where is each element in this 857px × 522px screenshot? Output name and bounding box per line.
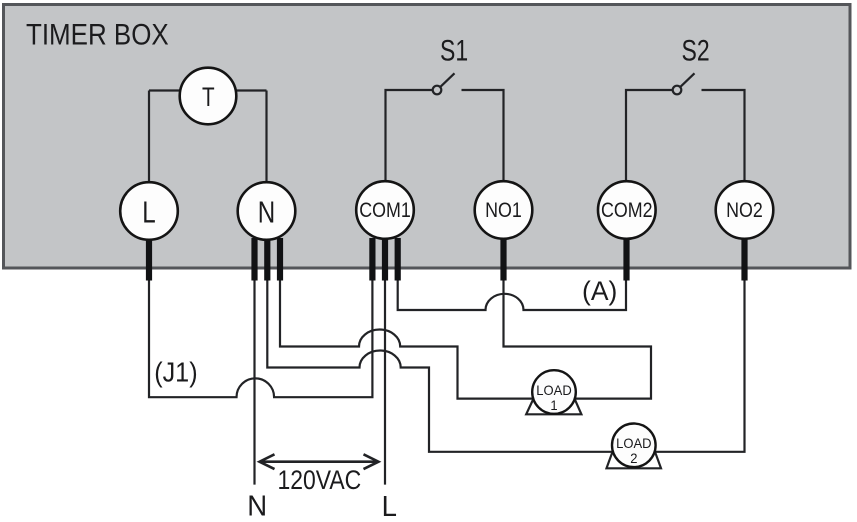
wire S1 to NO1 xyxy=(462,90,504,182)
wire A: COM1 right pin to COM2 xyxy=(398,279,626,310)
svg-text:N: N xyxy=(258,194,275,229)
terminal N xyxy=(238,182,296,240)
load 1 xyxy=(532,370,576,414)
pin stub NO1 xyxy=(500,238,506,281)
wire N right pin to LOAD1 left xyxy=(280,279,533,399)
wire NO1 to LOAD1 right xyxy=(504,279,652,399)
load 2 xyxy=(612,424,656,468)
load 2 stand xyxy=(607,452,662,469)
svg-text:LOAD: LOAD xyxy=(536,383,572,399)
svg-text:LOAD: LOAD xyxy=(616,436,652,452)
timer motor T xyxy=(180,68,237,125)
switch S2 xyxy=(673,73,695,94)
wire NO2 to LOAD2 right xyxy=(656,279,745,452)
wire COM1 to S1 xyxy=(386,90,433,182)
svg-text:COM2: COM2 xyxy=(601,199,653,223)
pin stubs COM1 (3) xyxy=(369,238,375,281)
terminal NO1 xyxy=(475,181,533,239)
svg-text:120VAC: 120VAC xyxy=(278,465,362,495)
pin stub COM2 xyxy=(623,238,629,281)
svg-text:S1: S1 xyxy=(440,34,468,67)
pin stub L xyxy=(146,238,152,281)
wire T to N xyxy=(234,91,267,184)
wire COM1 middle pin to external L xyxy=(384,279,386,485)
terminal L xyxy=(120,182,178,240)
terminal NO2 xyxy=(716,181,774,239)
svg-text:(J1): (J1) xyxy=(154,356,197,388)
pin stub NO2 xyxy=(741,238,747,281)
dimension arrow 120VAC xyxy=(260,454,379,469)
terminal COM1 xyxy=(356,181,414,239)
svg-text:NO2: NO2 xyxy=(726,199,763,223)
svg-text:NO1: NO1 xyxy=(485,199,522,223)
svg-text:L: L xyxy=(142,194,155,229)
svg-text:S2: S2 xyxy=(682,34,710,67)
load 1 stand xyxy=(526,399,581,415)
wire COM2 to S2 xyxy=(626,90,673,182)
pin stubs N (3) xyxy=(251,238,257,281)
svg-text:N: N xyxy=(247,489,267,522)
timer box enclosure xyxy=(4,5,851,269)
wire N left pin to external N xyxy=(253,279,255,485)
svg-text:L: L xyxy=(382,489,397,522)
wire S2 to NO2 xyxy=(702,90,745,182)
svg-text:(A): (A) xyxy=(582,276,617,306)
svg-text:TIMER BOX: TIMER BOX xyxy=(26,18,169,51)
svg-text:COM1: COM1 xyxy=(359,199,411,223)
svg-text:T: T xyxy=(202,83,215,113)
svg-text:2: 2 xyxy=(630,451,637,467)
switch S1 xyxy=(433,73,455,94)
wire J1 jumper: L terminal to COM1 left pin xyxy=(149,279,372,397)
terminal COM2 xyxy=(598,181,656,239)
terminal stubs xyxy=(146,238,748,281)
svg-text:1: 1 xyxy=(550,397,557,413)
wire N middle pin to LOAD2 left xyxy=(267,279,612,452)
wire T to L xyxy=(149,91,182,184)
